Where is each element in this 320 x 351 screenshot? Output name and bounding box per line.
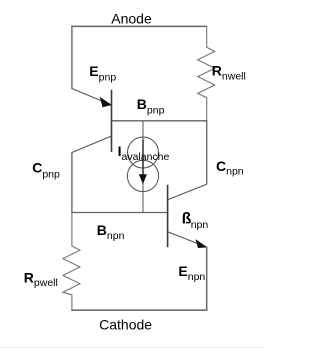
- svg-text:Cathode: Cathode: [99, 317, 152, 333]
- svg-text:ßnpn: ßnpn: [182, 210, 209, 231]
- transistor Q1 PNP base bar: [111, 90, 113, 152]
- wire current source branch vertical: [142, 121, 144, 213]
- arrow NPN emitter head: [196, 240, 207, 248]
- wire PNP base to right rail: [112, 120, 208, 122]
- wire PNP emitter: [72, 89, 112, 106]
- resistor R1 Rnwell zigzag: [198, 26, 215, 121]
- wire Bnpn node horizontal: [71, 212, 168, 214]
- svg-text:Enpn: Enpn: [178, 263, 205, 283]
- wire right rail lower: [206, 247, 208, 311]
- current source I1 bottom circle: [127, 160, 158, 191]
- wire right rail mid: [206, 120, 208, 184]
- svg-text:Rnwell: Rnwell: [212, 62, 246, 82]
- svg-text:Epnp: Epnp: [89, 63, 116, 84]
- arrow PNP emitter head: [100, 98, 111, 107]
- wire left rail upper: [71, 26, 73, 89]
- faint page rule at bottom: [0, 347, 266, 349]
- svg-text:Cnpn: Cnpn: [216, 158, 244, 178]
- svg-text:Rpwell: Rpwell: [24, 269, 58, 289]
- arrow current source shaft: [142, 140, 144, 178]
- wire PNP collector: [72, 136, 112, 153]
- transistor Q2 NPN base bar: [167, 185, 169, 248]
- svg-text:Bnpn: Bnpn: [97, 222, 125, 242]
- arrow current source head: [139, 174, 147, 184]
- svg-text:Anode: Anode: [111, 10, 152, 26]
- svg-text:Cpnp: Cpnp: [32, 160, 60, 181]
- wire NPN collector: [168, 184, 207, 200]
- resistor R2 Rpwell zigzag: [63, 213, 80, 311]
- svg-text:Bpnp: Bpnp: [137, 96, 165, 117]
- wire left rail mid: [71, 152, 73, 213]
- current source I1 top circle: [128, 137, 159, 168]
- wire top anode rail: [71, 25, 207, 27]
- wire bottom cathode rail: [71, 309, 207, 311]
- wire NPN emitter: [168, 232, 207, 247]
